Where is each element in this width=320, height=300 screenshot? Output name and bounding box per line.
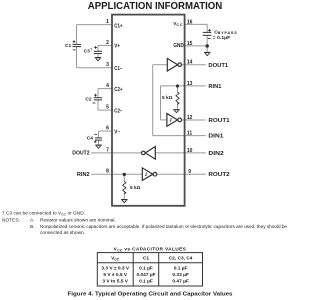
wire receiver1 input horizontal	[161, 119, 167, 121]
svg-text:12: 12	[187, 115, 193, 121]
svg-text:† C3 can be connected to VCC o: † C3 can be connected to VCC or GND.	[2, 211, 85, 217]
svg-text:†: †	[90, 47, 92, 51]
ground (VCC bypass)	[204, 53, 210, 56]
svg-text:Nonpolarized ceramic capacitor: Nonpolarized ceramic capacitors are acce…	[40, 224, 287, 230]
wire driver2 input to pin10 DIN2	[155, 152, 206, 154]
svg-text:6: 6	[106, 126, 109, 132]
svg-text:APPLICATION INFORMATION: APPLICATION INFORMATION	[88, 1, 223, 12]
wire RIN2 resistor to ground	[123, 192, 125, 200]
wire pin7 DOUT2 to driver2 output	[91, 152, 142, 154]
component value labels	[65, 29, 237, 191]
table frame	[97, 253, 202, 286]
svg-text:RIN1: RIN1	[208, 84, 221, 90]
wire RIN1 resistor to ground	[177, 103, 179, 110]
wire C1 vertical top	[76, 25, 78, 45]
svg-text:V+: V+	[114, 44, 120, 50]
wire receiver2 output to pin9 ROUT2	[157, 173, 206, 175]
svg-text:A.: A.	[30, 218, 35, 224]
svg-text:0.1 µF: 0.1 µF	[174, 266, 188, 272]
capacitor C3	[94, 46, 102, 54]
svg-text:14: 14	[187, 60, 193, 66]
svg-text:0.1 µF: 0.1 µF	[139, 266, 153, 272]
wire pin16 VCC stub	[185, 23, 208, 25]
wire pin15 GND stub	[185, 45, 208, 47]
svg-text:B.: B.	[30, 224, 35, 230]
svg-text:1: 1	[106, 19, 109, 25]
svg-text:C2−: C2−	[114, 108, 122, 114]
svg-text:8: 8	[106, 169, 109, 175]
svg-text:= 0.1µF: = 0.1µF	[213, 35, 231, 41]
wire RIN1 5k resistor drop	[177, 86, 179, 92]
wire pin4 C2+ stub	[98, 88, 112, 90]
wire pin11 DIN1	[153, 135, 206, 137]
svg-text:16: 16	[187, 19, 193, 25]
svg-text:5 kΩ: 5 kΩ	[130, 185, 141, 191]
wire pin6 V- stub	[99, 130, 113, 132]
hysteresis symbol (receiver2)	[145, 173, 147, 175]
svg-text:Resistor values shown are nomi: Resistor values shown are nominal.	[40, 218, 116, 224]
wire GND to ground symbol	[206, 46, 208, 52]
wire C2 vertical top	[97, 89, 99, 98]
svg-text:C1: C1	[65, 43, 71, 49]
op-amp driver1 (DIN1 to DOUT1)	[167, 58, 181, 71]
ground (RIN2 resistor)	[121, 200, 127, 203]
ground (C3)	[95, 58, 101, 61]
svg-text:C2, C3, C4: C2, C3, C4	[169, 256, 193, 262]
svg-text:5 kΩ: 5 kΩ	[162, 95, 173, 101]
svg-text:DOUT1: DOUT1	[208, 63, 228, 69]
wire C4 to ground	[98, 140, 100, 144]
wire C4 vertical	[98, 131, 100, 138]
svg-text:3.3 V ± 0.3 V: 3.3 V ± 0.3 V	[101, 266, 129, 272]
junction dot (RIN1)	[176, 84, 179, 87]
outside signal labels	[72, 63, 230, 178]
table column line 2	[158, 253, 160, 286]
wire pin1 C1+ stub	[77, 24, 113, 26]
wire C2 vertical bottom	[97, 100, 99, 110]
svg-text:0.047 µF: 0.047 µF	[136, 272, 155, 278]
wire driver1 output to pin14 DOUT1	[182, 64, 206, 66]
wire pin8 RIN2 to receiver2 input	[91, 173, 142, 175]
svg-text:V−: V−	[114, 130, 120, 136]
svg-text:5: 5	[106, 105, 109, 111]
svg-text:RIN2: RIN2	[77, 172, 90, 178]
svg-text:5 V ± 0.5 V: 5 V ± 0.5 V	[103, 272, 127, 278]
junction dot (bypass/GND)	[206, 44, 209, 47]
table text	[101, 256, 192, 285]
wire pin2 V+ stub	[98, 44, 112, 46]
svg-text:C1−: C1−	[114, 66, 122, 72]
pin number labels	[106, 19, 193, 175]
hysteresis symbol (receiver1)	[170, 119, 172, 121]
op-amp receiver1 (RIN1 to ROUT1)	[167, 114, 182, 127]
svg-text:3: 3	[106, 62, 109, 68]
wire receiver1 input vertical	[160, 86, 162, 120]
svg-text:DOUT2: DOUT2	[72, 151, 90, 157]
svg-text:C2+: C2+	[114, 87, 122, 93]
op-amp driver2 (DIN2 to DOUT2)	[142, 147, 156, 160]
svg-text:C1: C1	[143, 256, 149, 262]
svg-text:CBYPASS: CBYPASS	[214, 29, 237, 35]
svg-text:connected as shown.: connected as shown.	[40, 230, 85, 236]
capacitor C2	[93, 94, 103, 103]
svg-text:13: 13	[187, 81, 193, 87]
wire CBYPASS vertical bottom	[206, 36, 208, 46]
svg-text:DIN2: DIN2	[208, 151, 224, 157]
svg-text:Figure 4. Typical Operating Ci: Figure 4. Typical Operating Circuit and …	[68, 291, 233, 297]
svg-text:C4: C4	[87, 136, 93, 142]
svg-text:C1+: C1+	[114, 23, 122, 29]
svg-text:2: 2	[106, 40, 109, 46]
ground (C4)	[95, 145, 101, 148]
svg-text:NOTES:: NOTES:	[2, 218, 20, 224]
wire C3 to ground	[97, 54, 99, 58]
svg-text:ROUT2: ROUT2	[208, 172, 230, 178]
svg-text:15: 15	[187, 41, 193, 47]
svg-text:C2: C2	[85, 96, 91, 102]
svg-text:DIN1: DIN1	[208, 134, 223, 140]
table column line 1	[132, 253, 134, 286]
junction dot (RIN2)	[123, 173, 126, 176]
svg-text:0.33 µF: 0.33 µF	[172, 272, 188, 278]
resistor 5k (RIN1)	[176, 92, 179, 105]
ground (RIN1 resistor)	[173, 110, 179, 113]
svg-text:0.1 µF: 0.1 µF	[139, 278, 153, 284]
svg-text:4: 4	[106, 83, 109, 89]
wire C1 vertical bottom	[76, 47, 78, 68]
resistor 5k (RIN2)	[123, 182, 126, 195]
wire CBYPASS vertical top	[206, 24, 208, 32]
op-amp receiver2 (RIN2 to ROUT2)	[142, 168, 156, 181]
svg-text:0.47 µF: 0.47 µF	[172, 278, 188, 284]
IC body U1	[112, 15, 185, 206]
wire RIN2 5k resistor drop	[123, 174, 125, 181]
wire driver1 input horizontal	[153, 64, 168, 66]
svg-text:10: 10	[187, 148, 193, 154]
capacitor C1	[73, 40, 82, 50]
svg-text:9: 9	[188, 169, 191, 175]
svg-text:7: 7	[106, 147, 109, 153]
inside pin name labels	[114, 21, 184, 136]
svg-text:3 V to 5.5 V: 3 V to 5.5 V	[102, 278, 128, 284]
svg-text:11: 11	[187, 131, 193, 137]
table header underline	[97, 262, 202, 264]
wire pin3 C1- stub	[77, 67, 113, 69]
wire pin13 RIN1	[161, 85, 206, 87]
wire receiver1 output to pin12 ROUT1	[182, 119, 206, 121]
svg-text:ROUT1: ROUT1	[208, 118, 230, 124]
capacitor C4	[94, 134, 102, 143]
wire driver1 input vertical	[152, 65, 154, 136]
svg-text:VCC vs CAPACITOR VALUES: VCC vs CAPACITOR VALUES	[114, 247, 187, 253]
svg-text:GND: GND	[173, 43, 184, 49]
capacitor CBYPASS	[203, 29, 212, 39]
wire C3 vertical	[97, 45, 99, 51]
wire pin5 C2- stub	[98, 109, 112, 111]
